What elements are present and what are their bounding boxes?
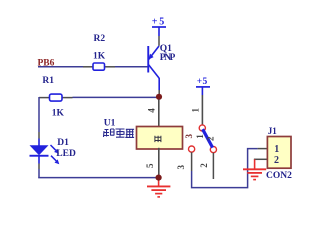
- svg-text:LED: LED: [56, 149, 76, 159]
- connector J1: [266, 126, 292, 181]
- wire PB6 to R2: [38, 66, 83, 68]
- svg-text:CON2: CON2: [266, 171, 292, 181]
- svg-text:+5: +5: [152, 17, 165, 28]
- switch lever: [203, 129, 213, 147]
- wire LED to bottom rail: [38, 164, 40, 170]
- wire collector down: [158, 90, 160, 97]
- svg-text:U1: U1: [104, 119, 116, 129]
- svg-text:+5: +5: [197, 77, 208, 87]
- pin 2 stub (unconnected): [212, 153, 214, 179]
- svg-text:R2: R2: [94, 34, 106, 44]
- power +5 symbol (top, for Q1 emitter): [152, 17, 166, 37]
- J1 pin1 stub: [258, 148, 268, 150]
- node collector junction: [156, 94, 162, 100]
- svg-text:D1: D1: [57, 138, 69, 148]
- node bottom junction: [156, 175, 162, 181]
- svg-text:PNP: PNP: [160, 53, 176, 63]
- svg-text:R1: R1: [42, 76, 54, 86]
- svg-text:1K: 1K: [52, 109, 65, 119]
- svg-text:3: 3: [184, 133, 194, 138]
- svg-text:3: 3: [176, 164, 186, 169]
- svg-text:1: 1: [195, 134, 205, 139]
- svg-text:2: 2: [206, 136, 216, 141]
- svg-text:1: 1: [274, 144, 279, 155]
- transistor Q1: [147, 44, 175, 90]
- relay U1: [104, 100, 183, 176]
- wire pin3 to J1 pin1: [192, 149, 258, 188]
- wire +5 to switch common: [201, 95, 203, 125]
- ground (below relay): [147, 181, 170, 197]
- J1 pin2 stub: [254, 158, 268, 160]
- wire bottom rail: [38, 177, 158, 179]
- wire R1 to collector node: [73, 96, 160, 98]
- ground (J1 pin2): [243, 159, 266, 179]
- wire R2 to Q1 base: [115, 66, 148, 68]
- wire emitter to +5: [158, 36, 160, 46]
- svg-text:1: 1: [191, 107, 201, 112]
- diode D1 LED: [30, 138, 76, 164]
- svg-text:2: 2: [199, 163, 209, 168]
- svg-text:J1: J1: [268, 126, 278, 136]
- pin 3 stub: [191, 152, 193, 171]
- resistor R2: [83, 34, 115, 70]
- label 继电器 (relay): [104, 129, 135, 138]
- svg-text:4: 4: [147, 108, 157, 113]
- svg-text:5: 5: [145, 163, 155, 168]
- power +5 symbol (above relay switch): [196, 77, 210, 95]
- svg-text:2: 2: [274, 155, 279, 166]
- relay switch contacts: [189, 125, 217, 153]
- svg-text:1K: 1K: [93, 51, 106, 61]
- wire left rail down to LED: [38, 97, 40, 132]
- resistor R1: [39, 76, 73, 119]
